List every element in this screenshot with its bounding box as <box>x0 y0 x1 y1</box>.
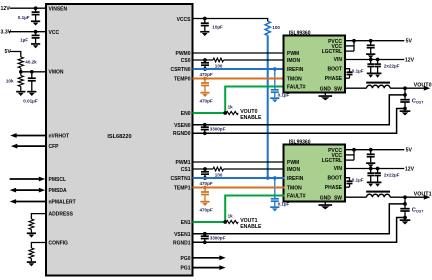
ground 22uF b 1 <box>374 182 382 186</box>
wire VCCS <box>193 19 268 22</box>
resistor ADDRESS <box>29 219 34 230</box>
svg-text:IREFIN: IREFIN <box>287 67 304 73</box>
ground 22uF b 0 <box>374 73 382 77</box>
junction PVCC bar 1 <box>352 148 356 152</box>
svg-text:PHASE: PHASE <box>325 185 343 191</box>
svg-text:CS0: CS0 <box>181 58 191 64</box>
svg-text:0.1µF: 0.1µF <box>278 202 290 207</box>
svg-text:TEMP1: TEMP1 <box>174 186 191 192</box>
svg-text:VINSEN: VINSEN <box>49 7 68 13</box>
wire 12V rail 0 <box>344 59 404 61</box>
svg-text:VOUT0: VOUT0 <box>414 82 432 88</box>
svg-text:12V: 12V <box>1 6 11 12</box>
ground CONFIG <box>27 262 36 266</box>
svg-text:VMON: VMON <box>49 70 64 76</box>
svg-text:COUT: COUT <box>412 207 425 213</box>
ground IREFIN0 cap <box>270 98 279 102</box>
junction VMON cap <box>30 70 34 74</box>
svg-text:CFP: CFP <box>49 144 60 150</box>
capacitor 0.1uF BOOT 1 <box>347 181 353 187</box>
junction PVCC bar 0 <box>352 39 356 43</box>
svg-text:TEMP0: TEMP0 <box>174 77 191 83</box>
capacitor 0.01uF at VMON <box>28 72 36 91</box>
svg-text:ENABLE: ENABLE <box>240 115 262 121</box>
capacitor 3300pF ch0 <box>201 125 209 134</box>
svg-text:CSRTN1: CSRTN1 <box>170 176 190 182</box>
junction VSEN1 sense <box>403 202 407 206</box>
wire FAULT1 green <box>225 196 284 223</box>
wire COUT to ground <box>404 218 406 220</box>
label VOUT0 ENABLE <box>240 109 262 121</box>
arrow PG0 <box>219 255 225 260</box>
junction 12V cap a 1 <box>369 167 373 171</box>
svg-text:BOOT: BOOT <box>328 67 342 73</box>
junction 5V cap 0 <box>369 39 373 43</box>
junction 5V cap 1 <box>369 148 373 152</box>
svg-text:LGCTRL: LGCTRL <box>322 158 342 164</box>
wire 12V to VINSEN <box>10 7 47 9</box>
wire LGCTRL stub 1 <box>344 159 354 161</box>
wire PWM1 <box>193 161 285 163</box>
wire CONFIG res to gnd <box>30 259 32 262</box>
resistor 1k EN1 <box>226 220 238 223</box>
svg-text:470pF: 470pF <box>200 99 213 104</box>
resistor CONFIG <box>29 248 34 259</box>
wire IMON0 <box>224 59 285 61</box>
junction 12V cap a 0 <box>369 58 373 62</box>
junction EN0 <box>223 111 227 115</box>
svg-text:5V: 5V <box>5 49 12 55</box>
ground 22uF a 1 <box>367 182 375 186</box>
junction 12V cap b 1 <box>376 167 380 171</box>
junction EN1 <box>223 220 227 224</box>
svg-text:100: 100 <box>215 173 223 178</box>
ground 10uF <box>200 32 209 36</box>
wire PWM0 <box>193 52 285 54</box>
node VOUT0 <box>403 86 407 90</box>
wire VCC stub 1 <box>344 154 354 156</box>
svg-text:nPMALERT: nPMALERT <box>49 200 76 206</box>
svg-text:PG1: PG1 <box>180 266 190 272</box>
svg-text:PMSCL: PMSCL <box>49 177 67 183</box>
wire COUT to ground <box>404 109 406 111</box>
svg-text:0.1µF: 0.1µF <box>352 177 364 182</box>
ground 470pF TEMP1 <box>200 202 209 206</box>
arrow CFP <box>11 144 17 149</box>
wire PMSCL in <box>10 178 41 180</box>
capacitor COUT 0 <box>400 100 409 109</box>
svg-text:470pF: 470pF <box>200 208 213 213</box>
svg-text:1k: 1k <box>228 213 234 218</box>
wire 12V rail 1 <box>344 168 404 170</box>
wire 5V rail 1 <box>344 149 404 151</box>
wire BOOT stub 1 <box>344 178 349 181</box>
junction CSRTN1 cap <box>203 176 207 180</box>
svg-text:EN0: EN0 <box>181 111 191 117</box>
svg-text:FAULT#: FAULT# <box>287 194 306 200</box>
capacitor 22uF a 1 <box>367 169 374 182</box>
svg-text:100: 100 <box>215 64 223 69</box>
svg-text:ISL99360: ISL99360 <box>289 31 311 37</box>
svg-text:EN1: EN1 <box>181 220 191 226</box>
svg-text:VIN: VIN <box>334 166 343 172</box>
ground COUT 1 <box>400 220 411 224</box>
ground ADDRESS <box>27 233 36 237</box>
svg-text:VOUT1: VOUT1 <box>414 191 432 197</box>
svg-text:CSRTN0: CSRTN0 <box>170 67 190 73</box>
svg-text:PMSDA: PMSDA <box>49 188 67 194</box>
svg-text:RGND1: RGND1 <box>173 241 191 247</box>
svg-text:SW: SW <box>334 86 342 92</box>
ground 0.1uF VINSEN <box>31 21 40 25</box>
wire VOUT1 to COUT <box>404 197 406 208</box>
svg-text:5V: 5V <box>406 148 413 154</box>
wire TEMP1 TMON1 <box>193 187 285 189</box>
resistor 10k <box>20 72 22 76</box>
wire CONFIG <box>31 243 46 249</box>
ground 10k <box>16 92 25 96</box>
wire CFP out <box>14 145 46 147</box>
wire SW 1 <box>344 196 366 198</box>
capacitor 5V decoupling 0 <box>367 41 375 54</box>
junction IREFIN1 filter <box>273 176 277 180</box>
capacitor 470pF CS1-CSRTN1 <box>201 169 209 178</box>
resistor 1k EN0 <box>226 111 238 114</box>
ground 470pF TEMP0 <box>200 93 209 97</box>
wire ISL99360 GND <box>324 201 326 205</box>
wire VCC bar 1 <box>353 150 355 160</box>
svg-text:VCC: VCC <box>49 30 60 36</box>
capacitor 10uF at VCCS <box>201 19 209 31</box>
svg-text:1k: 1k <box>228 104 234 109</box>
wire IREFIN bias vertical <box>267 35 269 178</box>
wire inductor to VOUT0 <box>390 87 424 89</box>
wire VCC stub 0 <box>344 45 354 47</box>
node VOUT1 <box>403 195 407 199</box>
svg-text:40.2k: 40.2k <box>25 59 37 64</box>
wire RGND1 <box>193 218 406 243</box>
capacitor 0.1uF IREFIN0 <box>271 69 279 97</box>
wire PG0 <box>193 257 221 259</box>
junction VSEN0 3300pF <box>203 123 207 127</box>
wire EN1 <box>193 221 226 223</box>
wire RGND0 <box>193 109 406 134</box>
capacitor 0.1uF BOOT 0 <box>347 72 353 78</box>
svg-text:3.3V: 3.3V <box>1 30 12 36</box>
arrow PMSCL <box>39 177 45 182</box>
svg-text:SW: SW <box>334 195 342 201</box>
junction VINSEN cap <box>34 6 38 10</box>
capacitor 1uF at VCC <box>32 32 40 43</box>
svg-text:BOOT: BOOT <box>328 176 342 182</box>
wire EN0 <box>193 112 226 114</box>
junction RGND1 3300pF <box>203 240 207 244</box>
wire BOOT stub 0 <box>344 69 349 72</box>
junction IREFIN1 bias <box>266 176 270 180</box>
wire ADDRESS <box>31 214 46 219</box>
junction TEMP0 cap <box>203 77 207 81</box>
wire nPMALERT out <box>13 201 46 203</box>
wire ADDRESS res to gnd <box>30 230 32 233</box>
junction VSEN1 3300pF <box>203 232 207 236</box>
resistor 40.2k <box>18 57 23 68</box>
svg-text:470pF: 470pF <box>200 72 213 77</box>
capacitor 22uF b 0 <box>374 60 381 73</box>
svg-text:12V: 12V <box>405 167 415 173</box>
ground 5V cap 1 <box>366 163 375 167</box>
capacitor COUT 1 <box>400 209 409 218</box>
label VOUT1 ENABLE <box>240 218 262 230</box>
wire PMSDA bidir <box>13 189 41 191</box>
svg-text:PWM0: PWM0 <box>176 51 191 57</box>
arrow PMSDA left <box>10 188 16 193</box>
junction CS0 cap <box>203 58 207 62</box>
svg-text:ADDRESS: ADDRESS <box>49 212 74 218</box>
resistor 100 CS1 <box>213 167 224 171</box>
capacitor 0.1uF at VINSEN <box>32 8 40 20</box>
arrow nPMALERT <box>10 199 16 204</box>
wire TEMP0 TMON0 <box>193 78 285 80</box>
capacitor 470pF CS0-CSRTN0 <box>201 60 209 69</box>
wire VSEN0 <box>193 95 406 125</box>
capacitor 22uF b 1 <box>374 169 381 182</box>
wire CS0 <box>193 59 214 61</box>
svg-text:PG0: PG0 <box>180 256 190 262</box>
svg-text:0.1µF: 0.1µF <box>352 68 364 73</box>
svg-text:CS1: CS1 <box>181 167 191 173</box>
svg-text:GND: GND <box>320 86 332 92</box>
svg-text:PWM1: PWM1 <box>176 160 191 166</box>
svg-text:5V: 5V <box>406 39 413 45</box>
wire IMON1 <box>224 168 285 170</box>
power stage ISL99360 body <box>284 36 346 93</box>
arrow PG1 <box>219 265 225 270</box>
inductor L0 <box>366 82 390 89</box>
wire PHASE stub 1 <box>344 186 349 188</box>
wire CS1 <box>193 168 214 170</box>
svg-text:ENABLE: ENABLE <box>240 224 262 230</box>
wire CSRTN1 IREFIN1 <box>193 177 285 179</box>
svg-text:PHASE: PHASE <box>325 76 343 82</box>
wire ISL99360 GND <box>324 92 326 96</box>
svg-text:IMON: IMON <box>287 167 300 173</box>
capacitor 0.1uF IREFIN1 <box>271 178 279 206</box>
junction VSEN0 sense <box>403 93 407 97</box>
svg-text:FAULT#: FAULT# <box>287 85 306 91</box>
svg-text:100: 100 <box>272 25 280 30</box>
junction IREFIN0 filter <box>273 67 277 71</box>
wire LGCTRL stub 0 <box>344 50 354 52</box>
wire 3.3V to VCC <box>9 31 47 33</box>
inductor L1 <box>366 191 390 198</box>
ground 22uF a 0 <box>367 73 375 77</box>
svg-text:CONFIG: CONFIG <box>49 241 69 247</box>
svg-text:IREFIN: IREFIN <box>287 176 304 182</box>
wire 5V rail 0 <box>344 40 404 42</box>
svg-text:10k: 10k <box>6 78 14 83</box>
svg-text:TMON: TMON <box>287 76 302 82</box>
svg-text:VIN: VIN <box>334 57 343 63</box>
ground 0.01uF <box>27 92 36 96</box>
junction RGND1 sense <box>403 216 407 220</box>
wire CSRTN0 IREFIN0 <box>193 68 285 70</box>
wire inductor to VOUT1 <box>390 196 424 198</box>
arrow VOUT0 <box>424 86 430 91</box>
resistor 100 IREFIN bias <box>265 21 270 35</box>
svg-text:GND: GND <box>320 195 332 201</box>
wire 5V to divider <box>10 52 21 58</box>
junction CSRTN0 cap <box>203 67 207 71</box>
svg-text:PWM: PWM <box>287 160 299 166</box>
svg-text:2x22µF: 2x22µF <box>384 172 400 177</box>
resistor 100 CS0 <box>213 58 224 62</box>
svg-text:10µF: 10µF <box>212 24 223 29</box>
junction VMON divider <box>19 70 23 74</box>
ground 5V cap 0 <box>366 54 375 58</box>
svg-text:COUT: COUT <box>412 98 425 104</box>
svg-text:VCCS: VCCS <box>177 17 192 23</box>
arrow PMSDA right <box>39 188 45 193</box>
junction 12V cap b 0 <box>376 58 380 62</box>
wire VCC bar 0 <box>353 41 355 51</box>
junction TEMP1 cap <box>203 186 207 190</box>
arrow nVRHOT <box>10 133 16 138</box>
wire FAULT0 green <box>225 87 284 114</box>
wire VOUT0 to COUT <box>404 88 406 99</box>
junction RGND0 sense <box>403 107 407 111</box>
wire PHASE stub 0 <box>344 77 349 79</box>
junction VCC cap <box>34 30 38 34</box>
svg-text:ISL68220: ISL68220 <box>107 134 131 140</box>
svg-text:0.01µF: 0.01µF <box>23 99 37 104</box>
svg-text:2x22µF: 2x22µF <box>384 63 400 68</box>
capacitor 470pF TEMP1 <box>201 188 209 201</box>
ground ISL99360 GND <box>319 205 333 209</box>
arrow VOUT1 <box>424 195 430 200</box>
svg-text:12V: 12V <box>405 58 415 64</box>
svg-text:ISL99360: ISL99360 <box>289 140 311 146</box>
capacitor 5V decoupling 1 <box>367 150 375 163</box>
ground IREFIN1 cap <box>270 207 279 211</box>
op-amp U1 ISL68220 controller body <box>46 4 193 276</box>
svg-text:0.1µF: 0.1µF <box>18 15 30 20</box>
junction RGND0 3300pF <box>203 131 207 135</box>
ground 1uF VCC <box>31 44 40 48</box>
junction VCCS cap <box>203 17 207 21</box>
power stage ISL99360 body <box>284 145 346 202</box>
capacitor 3300pF ch1 <box>201 234 209 243</box>
svg-text:3300pF: 3300pF <box>210 127 226 132</box>
ground COUT 0 <box>400 111 411 115</box>
capacitor 22uF a 0 <box>367 60 374 73</box>
svg-text:3300pF: 3300pF <box>210 236 226 241</box>
svg-text:LGCTRL: LGCTRL <box>322 49 342 55</box>
svg-text:1µF: 1µF <box>20 38 28 43</box>
svg-text:VSEN0: VSEN0 <box>174 123 191 129</box>
ground ISL99360 GND <box>319 96 333 100</box>
junction CS1 cap <box>203 167 207 171</box>
wire PG1 <box>193 267 221 269</box>
svg-text:IMON: IMON <box>287 58 300 64</box>
svg-text:nVRHOT: nVRHOT <box>49 134 70 140</box>
svg-text:RGND0: RGND0 <box>173 131 191 137</box>
wire nVRHOT out <box>14 135 47 137</box>
svg-text:470pF: 470pF <box>200 181 213 186</box>
wire SW 0 <box>344 87 366 89</box>
wire VSEN1 <box>193 204 406 234</box>
wire 10k to ground <box>20 87 22 91</box>
svg-text:PWM: PWM <box>287 51 299 57</box>
capacitor 470pF TEMP0 <box>201 79 209 92</box>
svg-text:TMON: TMON <box>287 185 302 191</box>
wire VMON <box>21 71 46 73</box>
svg-text:VSEN1: VSEN1 <box>174 232 191 238</box>
wire 40.2k to VMON node <box>20 68 22 72</box>
